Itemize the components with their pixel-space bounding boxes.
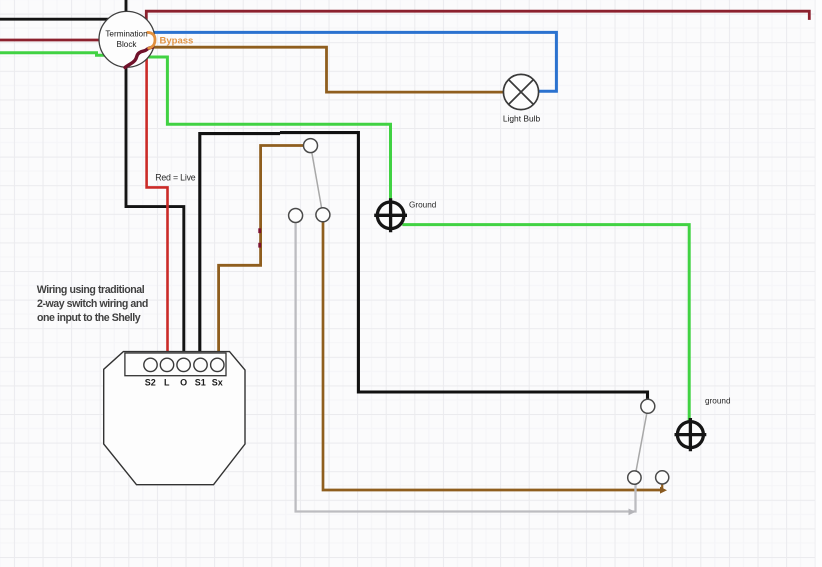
- svg-text:Termination: Termination: [105, 29, 148, 38]
- svg-text:S1: S1: [195, 377, 206, 387]
- svg-text:O: O: [180, 377, 187, 387]
- svg-text:L: L: [164, 377, 170, 387]
- svg-text:Bypass: Bypass: [160, 35, 194, 46]
- svg-text:Red = Live: Red = Live: [155, 172, 196, 182]
- svg-text:2-way switch wiring and: 2-way switch wiring and: [37, 298, 148, 310]
- svg-text:Sx: Sx: [212, 377, 223, 387]
- svg-text:Ground: Ground: [409, 200, 437, 209]
- svg-text:ground: ground: [705, 396, 731, 405]
- svg-text:S2: S2: [145, 377, 156, 387]
- svg-text:Block: Block: [116, 40, 137, 49]
- svg-text:one input to the Shelly: one input to the Shelly: [37, 312, 141, 324]
- svg-text:Wiring using traditional: Wiring using traditional: [37, 284, 145, 296]
- svg-text:Light Bulb: Light Bulb: [503, 114, 541, 124]
